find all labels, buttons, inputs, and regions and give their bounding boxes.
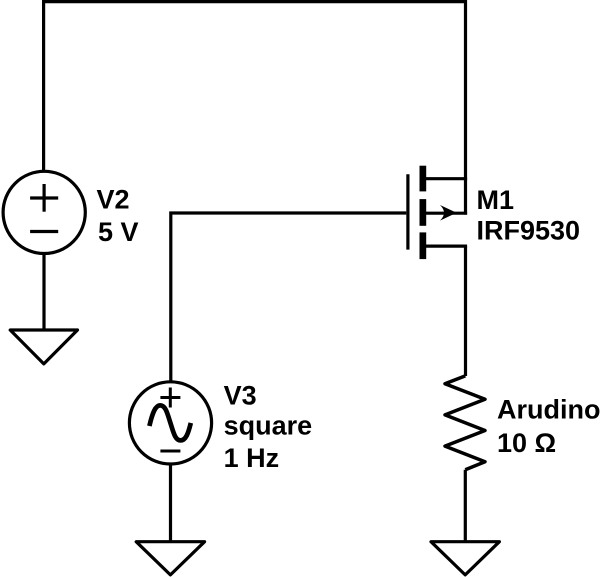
svg-text:1 Hz: 1 Hz <box>224 443 280 473</box>
transistor M1 drain stub (bottom) <box>426 245 467 248</box>
svg-text:10 Ω: 10 Ω <box>497 428 556 458</box>
ground symbol (below V2) <box>10 330 77 364</box>
V3 sine wave <box>149 405 190 440</box>
svg-text:M1: M1 <box>477 185 515 215</box>
transistor M1 arrow head <box>440 205 457 221</box>
svg-text:Arudino: Arudino <box>497 395 600 425</box>
transistor M1 gate bar <box>406 174 409 249</box>
wire V2 to ground <box>42 253 45 330</box>
ground symbol (below resistor) <box>431 542 499 575</box>
transistor M1 channel bars <box>420 166 427 259</box>
V2 minus sign <box>30 230 58 233</box>
svg-text:V2: V2 <box>97 185 130 215</box>
wire resistor to ground <box>464 470 467 542</box>
wire M1 drain to resistor <box>464 246 467 376</box>
ground symbol (below V3) <box>136 542 204 575</box>
wire V3 to MOSFET gate <box>171 213 406 382</box>
wire top rail <box>42 0 467 3</box>
voltage source V3 circle <box>129 382 211 464</box>
svg-text:square: square <box>224 411 313 441</box>
wire V3 to ground <box>169 464 172 542</box>
svg-text:V3: V3 <box>224 381 257 411</box>
wire left vertical (top rail to V2) <box>42 0 45 172</box>
resistor (Arudino) zigzag <box>445 376 485 470</box>
svg-text:5 V: 5 V <box>98 217 139 247</box>
transistor M1 body stub with arrow <box>426 212 467 215</box>
transistor M1 source stub (top) <box>426 177 467 180</box>
wire right vertical (top rail to M1 source) <box>464 0 467 215</box>
svg-text:IRF9530: IRF9530 <box>477 216 581 246</box>
V2 plus sign <box>30 184 58 212</box>
V3 small plus <box>160 388 180 408</box>
V3 small minus <box>160 450 180 453</box>
voltage source V2 circle <box>3 171 85 253</box>
